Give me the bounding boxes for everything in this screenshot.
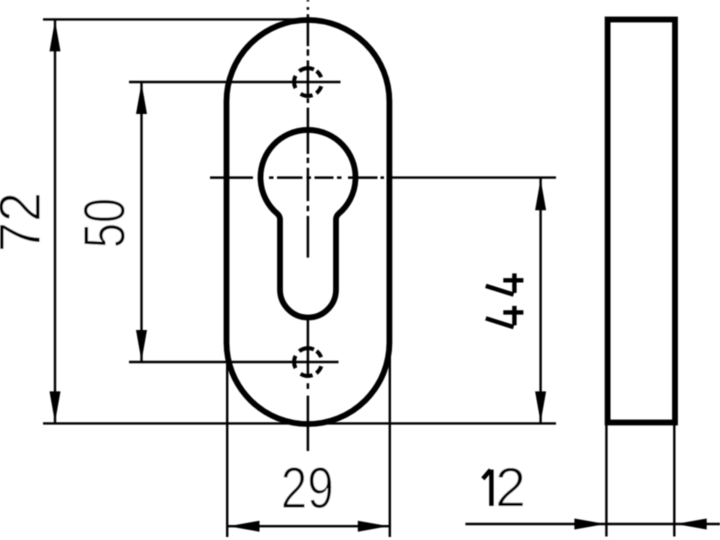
euro profile cylinder cutout: [261, 130, 356, 318]
vertical centerline of front view: [307, 0, 310, 451]
arrow 50 bottom: [136, 330, 147, 361]
svg-text:50: 50: [73, 198, 138, 248]
svg-text:2: 2: [495, 456, 526, 518]
horizontal centerline through cylinder hole: [210, 176, 384, 179]
dimension line 50: [140, 82, 142, 362]
extension line left side of side view down (12): [605, 424, 607, 537]
arrow 44 top: [535, 179, 546, 210]
dimension line 12 middle part: [606, 523, 675, 525]
dimension line 29: [228, 525, 390, 527]
dimension line 12 left part: [465, 523, 606, 525]
arrow 44 bottom: [535, 391, 546, 422]
extension line through bottom screw hole (50): [129, 361, 339, 363]
side view rectangle: [608, 20, 675, 423]
arrow 12 right (pointing left): [676, 519, 707, 530]
label 12: [483, 470, 492, 506]
extension line top (72): [43, 18, 312, 20]
extension line right side of side view down (12): [673, 424, 675, 537]
front view oval plate outline: [227, 20, 390, 424]
extension line right side of oval down (29): [389, 356, 391, 537]
arrow 72 bottom: [50, 391, 61, 422]
arrow 12 left (pointing right): [574, 519, 605, 530]
extension line left side of oval down (29): [226, 361, 228, 537]
extension line right of cylinder center (44): [387, 176, 556, 178]
arrow 72 top: [50, 20, 61, 51]
svg-text:29: 29: [281, 456, 334, 521]
extension line through top screw hole (50): [129, 81, 341, 83]
svg-text:72: 72: [0, 192, 53, 252]
label 44 (custom ISO-style open fours, rotated): [486, 273, 524, 327]
arrow 29 left: [229, 521, 260, 532]
dimension line 72: [54, 19, 56, 423]
arrow 50 top: [136, 83, 147, 114]
dimension line 12 right part: [675, 523, 720, 525]
bottom screw hole (dashed circle): [294, 348, 321, 376]
top screw hole (dashed circle): [294, 68, 321, 96]
arrow 29 right: [358, 521, 389, 532]
extension line bottom (72/44): [43, 422, 556, 424]
dimension line 44: [539, 178, 541, 423]
